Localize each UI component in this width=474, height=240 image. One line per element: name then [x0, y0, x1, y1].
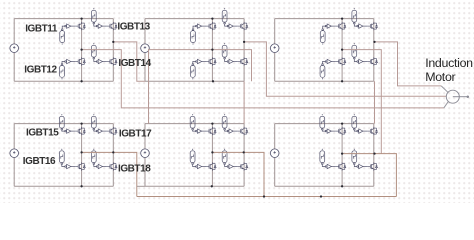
- junction J6: [341, 122, 343, 124]
- transistor IGBT16 (IGBT with anti-parallel diode): [75, 162, 85, 170]
- wire pulse to buffer: [62, 129, 66, 132]
- pulse generator IGBT13 drive: [91, 8, 96, 24]
- pulse generator IGBT12 drive: [60, 64, 65, 80]
- pulse generator Q24 drive: [222, 43, 227, 59]
- junction J20: [112, 151, 114, 153]
- junction J18: [373, 41, 375, 43]
- junction J11: [211, 185, 213, 187]
- wire bridge H5 right leg: [243, 124, 245, 187]
- wire gate lead: [233, 25, 237, 27]
- wire gate lead: [103, 166, 107, 168]
- pulse generator Q52 drive: [190, 149, 195, 165]
- gate signal port Q54 gate (buffer triangle): [227, 164, 233, 168]
- wire W5 phase A : H3 legB midpoint to motor: [375, 42, 442, 86]
- pulse generator Q54 drive: [222, 149, 227, 165]
- gate signal port IGBT14 gate (buffer triangle): [96, 59, 102, 63]
- junction J26: [320, 195, 322, 197]
- wire gate lead: [103, 130, 107, 132]
- transistor IGBT14 (IGBT with anti-parallel diode): [107, 57, 117, 65]
- wire gate lead: [233, 130, 237, 132]
- gate signal port IGBT18 gate (buffer triangle): [96, 164, 102, 168]
- transistor Q52 (IGBT with anti-parallel diode): [206, 162, 216, 170]
- junction J17: [243, 41, 245, 43]
- wire bridge H5 source to bottom rail: [144, 158, 146, 187]
- wire bridge H4 left leg: [81, 124, 83, 187]
- wire pulse to buffer: [354, 129, 357, 132]
- wire gate lead: [71, 61, 75, 63]
- wire bridge H3 source to bottom rail: [274, 53, 276, 82]
- junction J15: [341, 48, 343, 50]
- wire neutral bus: [137, 196, 397, 198]
- wire bridge H6 right leg: [373, 124, 375, 187]
- wire H5 output to neutral: [212, 152, 264, 196]
- wire bridge H6 left edge to source: [274, 124, 276, 149]
- wire pulse to buffer: [94, 165, 97, 167]
- wire gate lead: [363, 25, 367, 27]
- junction J24: [373, 152, 375, 154]
- wire bridge H2 left edge to source: [144, 19, 146, 44]
- junction J22: [243, 151, 245, 153]
- wire gate lead: [363, 61, 367, 63]
- gate signal port Q52 gate (buffer triangle): [195, 164, 201, 168]
- pulse generator Q33 drive: [352, 8, 357, 24]
- pulse generator Q53 drive: [222, 114, 227, 130]
- wire H4 output to neutral: [82, 152, 137, 196]
- gate signal port Q23 gate (buffer triangle): [227, 24, 233, 28]
- gate signal port Q64 gate (buffer triangle): [357, 164, 363, 168]
- junction J25: [263, 195, 265, 197]
- junction J7: [80, 80, 82, 82]
- transistor Q34 (IGBT with anti-parallel diode): [367, 57, 377, 65]
- wire pulse to buffer: [94, 129, 97, 132]
- pulse generator Q32 drive: [320, 64, 325, 80]
- gate signal port IGBT11 gate (buffer triangle): [65, 24, 71, 28]
- transistor Q24 (IGBT with anti-parallel diode): [238, 57, 248, 65]
- wire bridge H1 bottom rail: [14, 80, 113, 82]
- junction J10: [80, 185, 82, 187]
- wire gate lead: [331, 25, 335, 27]
- junction J12: [341, 185, 343, 187]
- wire bridge H1 right leg: [112, 19, 114, 82]
- svg-text:IGBT15: IGBT15: [26, 128, 59, 139]
- wire W6 : H3 legA midpoint down to H6 output: [342, 50, 381, 154]
- wire bridge H3 right leg: [373, 19, 375, 82]
- wire W3 phase B : H2 legB midpoint to motor: [244, 42, 446, 96]
- pulse generator IGBT11 drive: [60, 29, 65, 45]
- pulse generator Q61 drive: [320, 114, 325, 130]
- junction J16: [112, 41, 114, 43]
- transistor Q61 (IGBT with anti-parallel diode): [336, 127, 346, 135]
- transistor Q62 (IGBT with anti-parallel diode): [336, 162, 346, 170]
- wire W2 : H1 legB midpoint to H2 negative rail: [113, 42, 145, 81]
- gate signal port Q53 gate (buffer triangle): [227, 129, 233, 133]
- wire H5 negative rail extension: [137, 185, 145, 187]
- wire bridge H3 left edge to source: [274, 19, 276, 44]
- wire bridge H6 bottom rail: [275, 185, 374, 187]
- dc voltage source V1: [10, 44, 19, 53]
- wire bridge H4 bottom rail: [14, 185, 113, 187]
- junction J21: [211, 151, 213, 153]
- wire pulse to buffer: [225, 24, 228, 26]
- transistor Q32 (IGBT with anti-parallel diode): [336, 57, 346, 65]
- dc voltage source V3: [270, 44, 279, 53]
- transistor IGBT11 (IGBT with anti-parallel diode): [75, 22, 85, 30]
- transistor Q64 (IGBT with anti-parallel diode): [367, 162, 377, 170]
- wire H6 output to neutral: [342, 154, 396, 197]
- svg-text:IGBT11: IGBT11: [25, 24, 58, 35]
- gate signal port IGBT15 gate (buffer triangle): [65, 129, 71, 133]
- wire bridge H1 left edge to source: [13, 19, 15, 44]
- wire gate lead: [202, 61, 206, 63]
- wire W1 phase C : H1 legA midpoint to motor: [82, 50, 444, 108]
- pulse generator Q21 drive: [191, 29, 196, 45]
- junction J13: [80, 48, 82, 50]
- wire gate lead: [103, 61, 107, 63]
- wire gate lead: [71, 25, 75, 27]
- wire bridge H4 left edge to source: [13, 124, 15, 149]
- wire pulse to buffer: [62, 165, 66, 167]
- wire bridge H6 left leg: [341, 124, 343, 187]
- pulse generator Q22 drive: [190, 64, 195, 80]
- transistor Q51 (IGBT with anti-parallel diode): [206, 127, 216, 135]
- svg-text:IGBT12: IGBT12: [24, 64, 57, 75]
- wire bridge H6 source to bottom rail: [274, 158, 276, 187]
- junction J8: [212, 80, 214, 82]
- pulse generator Q64 drive: [352, 149, 357, 165]
- wire gate lead: [71, 166, 75, 168]
- gate signal port Q63 gate (buffer triangle): [357, 129, 363, 133]
- wire gate lead: [103, 25, 107, 27]
- wire gate lead: [363, 130, 367, 132]
- transistor Q21 (IGBT with anti-parallel diode): [206, 22, 216, 30]
- wire bridge H1 top rail: [14, 18, 113, 20]
- wire bridge H5 left leg: [211, 124, 213, 187]
- transistor Q31 (IGBT with anti-parallel diode): [336, 22, 346, 30]
- wire bridge H2 right leg: [243, 19, 245, 82]
- wire motor lead C diagonal: [444, 102, 449, 108]
- wire pulse to buffer: [94, 59, 97, 61]
- junction J2: [211, 17, 213, 19]
- pulse generator IGBT15 drive: [59, 114, 64, 130]
- wire pulse to buffer: [193, 62, 196, 64]
- pulse generator Q34 drive: [352, 43, 357, 59]
- dc voltage source V4: [10, 149, 19, 158]
- dc voltage source V6: [270, 149, 279, 158]
- wire gate lead: [363, 166, 367, 168]
- gate signal port IGBT16 gate (buffer triangle): [65, 164, 71, 168]
- pulse generator IGBT14 drive: [91, 43, 96, 59]
- wire gate lead: [331, 61, 335, 63]
- wire dc link H3 to H6: [374, 81, 376, 123]
- wire dc link H2 to H5: [243, 81, 245, 123]
- wire bridge H5 top rail: [145, 123, 244, 125]
- transistor IGBT12 (IGBT with anti-parallel diode): [75, 57, 85, 65]
- wire gate lead: [71, 130, 75, 132]
- motor shaft arrow: [467, 95, 470, 98]
- pulse generator IGBT16 drive: [59, 149, 64, 165]
- wire bridge H2 source to bottom rail: [144, 53, 146, 82]
- wire pulse to buffer: [323, 62, 326, 64]
- transistor Q54 (IGBT with anti-parallel diode): [238, 162, 248, 170]
- gate signal port IGBT13 gate (buffer triangle): [96, 24, 102, 28]
- wire bridge H2 left leg: [211, 19, 213, 82]
- gate signal port Q61 gate (buffer triangle): [325, 129, 331, 133]
- junction J1: [80, 17, 82, 19]
- wire W4 : H2 legA midpoint down to H5 positive rail: [149, 50, 213, 124]
- junction J5: [211, 122, 213, 124]
- junction J9: [341, 80, 343, 82]
- wire pulse to buffer: [354, 165, 357, 167]
- wire pulse to buffer: [354, 24, 357, 26]
- wire bridge H1 source to bottom rail: [13, 53, 15, 82]
- wire pulse to buffer: [354, 59, 357, 61]
- wire bridge H2 top rail: [145, 18, 244, 20]
- wire gate lead: [202, 25, 206, 27]
- wire pulse to buffer: [322, 165, 326, 167]
- gate signal port Q32 gate (buffer triangle): [325, 59, 331, 63]
- wire bridge H3 left leg: [341, 19, 343, 82]
- wire motor lead A diagonal: [441, 86, 448, 92]
- transistor Q33 (IGBT with anti-parallel diode): [367, 22, 377, 30]
- wire bridge H5 bottom rail: [145, 185, 244, 187]
- wire pulse to buffer: [193, 165, 197, 167]
- gate signal port Q22 gate (buffer triangle): [195, 59, 201, 63]
- junction J3: [341, 17, 343, 19]
- wire pulse to buffer: [225, 165, 228, 167]
- wire pulse to buffer: [322, 129, 326, 132]
- junction J4: [80, 122, 82, 124]
- gate signal port Q62 gate (buffer triangle): [325, 164, 331, 168]
- transistor Q23 (IGBT with anti-parallel diode): [238, 22, 248, 30]
- gate signal port Q31 gate (buffer triangle): [325, 24, 331, 28]
- junction J23: [341, 152, 343, 154]
- transistor Q63 (IGBT with anti-parallel diode): [367, 127, 377, 135]
- svg-text:IGBT13: IGBT13: [117, 21, 150, 32]
- wire pulse to buffer: [225, 129, 228, 132]
- wire bridge H6 top rail: [275, 123, 374, 125]
- wire pulse to buffer: [62, 26, 65, 29]
- svg-text:IGBT16: IGBT16: [23, 156, 56, 167]
- wire bridge H5 left edge to source: [144, 124, 146, 149]
- wire bridge H3 bottom rail: [275, 80, 374, 82]
- wire pulse to buffer: [193, 129, 197, 132]
- svg-text:Induction: Induction: [425, 56, 473, 70]
- gate signal port Q21 gate (buffer triangle): [195, 24, 201, 28]
- transistor IGBT18 (IGBT with anti-parallel diode): [107, 162, 117, 170]
- wire pulse to buffer: [323, 26, 326, 29]
- wire bridge H1 left leg: [81, 19, 83, 82]
- svg-text:IGBT18: IGBT18: [118, 163, 151, 174]
- wire pulse to buffer: [94, 24, 97, 26]
- pulse generator Q62 drive: [320, 149, 325, 165]
- pulse generator Q23 drive: [222, 8, 227, 24]
- wire bridge H2 bottom rail: [145, 80, 244, 82]
- wire H2 legA midpoint stub to negative rail: [212, 50, 251, 82]
- wire pulse to buffer: [193, 26, 196, 29]
- wire pulse to buffer: [62, 62, 65, 64]
- junction J14: [211, 48, 213, 50]
- wire bridge H4 source to bottom rail: [13, 158, 15, 187]
- transistor Q53 (IGBT with anti-parallel diode): [238, 127, 248, 135]
- wire bridge H4 top rail: [14, 123, 113, 125]
- wire gate lead: [233, 166, 237, 168]
- gate signal port IGBT17 gate (buffer triangle): [96, 129, 102, 133]
- wire gate lead: [331, 166, 335, 168]
- wire pulse to buffer: [225, 59, 228, 61]
- svg-text:IGBT14: IGBT14: [118, 58, 151, 69]
- svg-text:Motor: Motor: [425, 70, 455, 84]
- wire gate lead: [202, 166, 206, 168]
- wire bridge H4 right leg: [112, 124, 114, 187]
- svg-text:IGBT17: IGBT17: [119, 128, 152, 139]
- wire gate lead: [233, 61, 237, 63]
- junction J19: [80, 151, 82, 153]
- wire gate lead: [331, 130, 335, 132]
- pulse generator Q51 drive: [190, 114, 195, 130]
- gate signal port IGBT12 gate (buffer triangle): [65, 59, 71, 63]
- pulse generator IGBT17 drive: [91, 114, 96, 130]
- gate signal port Q51 gate (buffer triangle): [195, 129, 201, 133]
- gate signal port Q34 gate (buffer triangle): [357, 59, 363, 63]
- transistor IGBT17 (IGBT with anti-parallel diode): [107, 127, 117, 135]
- pulse generator IGBT18 drive: [91, 149, 96, 165]
- induction motor M1: [446, 90, 467, 103]
- transistor Q22 (IGBT with anti-parallel diode): [206, 57, 216, 65]
- pulse generator Q31 drive: [320, 29, 325, 45]
- gate signal port Q24 gate (buffer triangle): [227, 59, 233, 63]
- dc voltage source V2: [141, 44, 150, 53]
- transistor IGBT13 (IGBT with anti-parallel diode): [107, 22, 117, 30]
- wire gate lead: [202, 130, 206, 132]
- transistor IGBT15 (IGBT with anti-parallel diode): [75, 127, 85, 135]
- gate signal port Q33 gate (buffer triangle): [357, 24, 363, 28]
- wire bridge H3 top rail: [275, 18, 374, 20]
- pulse generator Q63 drive: [352, 114, 357, 130]
- dc voltage source V5: [141, 149, 150, 158]
